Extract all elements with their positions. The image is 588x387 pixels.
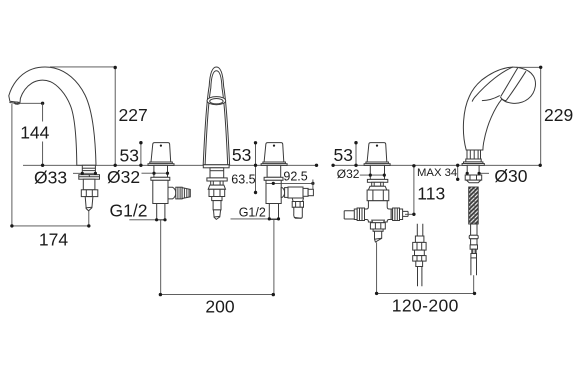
diverter left arm block	[354, 209, 357, 220]
svg-text:53: 53	[120, 146, 139, 166]
diverter centerline	[376, 242, 378, 293]
spout B2 lower tube	[213, 201, 221, 210]
hand shower ribbed connector	[467, 150, 481, 159]
handle H2 top dot	[273, 145, 275, 147]
spout B2 mouth inner	[210, 99, 223, 104]
handle H2 outlet nub	[308, 189, 313, 195]
label G1/2 right leader	[231, 218, 280, 220]
label G1/2 left leader	[129, 219, 165, 221]
dimension 113 leader	[405, 213, 414, 215]
diverter washer	[367, 179, 387, 182]
label diameter 32 small leader	[360, 174, 385, 176]
handle H3 base band	[366, 162, 389, 164]
diverter left arm hex	[357, 208, 364, 221]
handle H1 bottom tube	[157, 204, 165, 220]
spout A1 hex nut	[81, 190, 98, 197]
spout A1 aerator tip	[14, 102, 18, 105]
handle H1 shank tube	[154, 165, 168, 177]
hand shower flange plate	[462, 164, 484, 166]
spout B2 shank tube	[210, 168, 224, 178]
handle H1 outlet boss	[168, 187, 176, 199]
spout B2 flange	[203, 165, 229, 168]
svg-text:92.5: 92.5	[283, 170, 307, 184]
diverter bottom hex	[370, 223, 385, 229]
dimension 227 top line	[50, 66, 115, 68]
hand shower rim line 2	[506, 71, 526, 100]
handle H1 hose barb	[182, 188, 190, 199]
dimension 200 line	[160, 294, 273, 296]
svg-text:Ø32: Ø32	[337, 167, 360, 181]
diverter bottom step	[373, 229, 383, 231]
spout A1 nozzle lip	[9, 103, 20, 104]
svg-text:113: 113	[417, 184, 445, 204]
svg-text:229: 229	[544, 105, 573, 125]
svg-text:53: 53	[334, 145, 353, 165]
svg-text:227: 227	[119, 105, 148, 125]
spout A1 washer plate	[79, 175, 100, 180]
hose connector tube 3	[471, 254, 477, 258]
hand shower collar	[466, 159, 481, 162]
label diameter 30 leader	[479, 172, 489, 174]
spout B2 cone body	[203, 67, 229, 165]
svg-text:63.5: 63.5	[231, 173, 255, 187]
dimension 53 first line	[140, 142, 142, 165]
svg-text:G1/2: G1/2	[239, 205, 266, 219]
label diameter 32 left leader	[142, 172, 168, 174]
spout A1 tail pipe	[85, 197, 93, 211]
handle H3 base plate	[364, 164, 390, 166]
spout B2 shoulder	[208, 185, 225, 189]
handle H1 body	[151, 143, 171, 162]
handle H3 top dot	[376, 145, 378, 147]
hose connector ring	[469, 235, 478, 239]
handle H1 valve body	[153, 180, 168, 203]
hose connector band	[470, 245, 477, 249]
spout A1 lower tube	[83, 179, 95, 190]
svg-text:144: 144	[20, 123, 49, 143]
handle H2 base plate	[261, 164, 287, 166]
dimension 144 line	[42, 103, 44, 121]
handle H1 base plate	[148, 164, 174, 166]
hand shower plate bottom	[500, 97, 506, 101]
hand shower cone washer	[466, 180, 480, 183]
union fitting pipe top	[417, 224, 423, 236]
deck line right group	[333, 164, 540, 166]
handle H2 valve body	[266, 180, 281, 203]
handle H2 centerline	[273, 220, 275, 295]
hose connector tube 2	[471, 239, 477, 245]
diverter right arm boss	[391, 209, 392, 220]
handle H2 outlet step	[303, 188, 308, 196]
handle H2 washer	[264, 177, 283, 180]
handle H2 outlet boss	[281, 188, 284, 198]
dimension 227 line	[114, 67, 116, 165]
svg-text:120-200: 120-200	[392, 296, 459, 316]
union fitting band	[415, 250, 425, 256]
diverter big hex	[367, 190, 389, 201]
label diameter 33 leader	[73, 172, 96, 174]
dimension 229 top line	[516, 66, 541, 68]
hand shower rim line 1	[501, 68, 518, 97]
hand shower outline	[463, 67, 535, 150]
handle H1 outlet hex	[176, 187, 182, 199]
diverter right arm block	[400, 209, 403, 220]
handle H2 branch tube	[294, 207, 303, 218]
handle H1 centerline	[160, 220, 162, 295]
union fitting pipe bottom	[418, 267, 422, 287]
diverter right arm hex	[393, 208, 400, 221]
diverter left arm pipe	[344, 211, 354, 219]
dimension 53/63.5 shared line	[255, 143, 257, 193]
spout B2 washer	[207, 178, 227, 181]
hose connector tube	[471, 224, 477, 235]
deck line left group	[23, 164, 317, 166]
handle H2 branch hex	[292, 202, 303, 208]
svg-text:Ø32: Ø32	[107, 167, 140, 187]
hand shower mounting nut	[465, 175, 482, 180]
handle H1 top dot	[160, 145, 162, 147]
handle H2 outlet collar	[285, 188, 288, 198]
handle H1 washer	[151, 177, 170, 180]
hose connector dark detail	[472, 249, 476, 253]
dimension 92.5 line	[267, 182, 313, 184]
hand shower hose	[469, 187, 479, 224]
union fitting tube	[416, 261, 423, 266]
hand shower neck crease	[482, 96, 500, 101]
dimension 174 extension	[11, 104, 13, 226]
dimension 229 line	[540, 67, 542, 165]
spout B2 mouth outer	[207, 97, 226, 105]
hand shower shank tube	[467, 165, 479, 175]
diverter right arm pipe	[403, 211, 409, 216]
svg-text:Ø30: Ø30	[494, 166, 527, 186]
diverter shoulder	[368, 186, 386, 190]
spout A1 shank tube	[82, 165, 95, 174]
dimension 53 third line	[355, 143, 357, 166]
handle H2 base band	[263, 162, 286, 164]
union fitting hex upper	[413, 242, 426, 250]
hose end pipe	[471, 258, 477, 275]
spout B2 inner wall	[205, 71, 228, 165]
spout B2 tail pipe	[214, 210, 221, 220]
union fitting collar	[415, 236, 424, 242]
handle H2 branch collar	[292, 198, 303, 202]
svg-text:200: 200	[205, 297, 234, 317]
dimension 174 line	[12, 225, 89, 227]
handle H1 base band	[150, 162, 173, 164]
spout B2 collar	[211, 181, 223, 185]
diverter bottom collar	[372, 220, 385, 223]
diverter collar	[372, 182, 384, 186]
svg-text:174: 174	[39, 230, 68, 250]
spout B2 step	[212, 197, 222, 201]
dimension 113 line	[413, 165, 415, 214]
spout A1 curved body	[9, 67, 96, 165]
svg-text:MAX 34: MAX 34	[417, 167, 457, 179]
handle H2 shank tube	[267, 165, 281, 177]
handle H2 outlet cylinder	[288, 187, 303, 198]
union fitting hex lower	[413, 256, 426, 262]
diverter valve body	[365, 201, 392, 222]
svg-text:53: 53	[232, 145, 251, 165]
dimension 120-200 line	[377, 292, 475, 294]
handle H2 body	[264, 143, 284, 162]
label MAX 34 line	[457, 165, 459, 179]
spout A1 centerline	[88, 211, 90, 226]
diverter shank tube	[370, 165, 384, 179]
hose extension line	[473, 275, 475, 293]
dimension 92.5 extension	[312, 180, 314, 190]
svg-text:G1/2: G1/2	[110, 201, 148, 221]
hand shower flange step	[464, 162, 483, 164]
spout B2 hex nut	[209, 189, 225, 196]
handle H2 bottom tube	[269, 204, 278, 220]
hand shower inner sweep	[472, 67, 513, 102]
diverter tail pipe	[375, 231, 382, 242]
svg-text:Ø33: Ø33	[34, 168, 67, 188]
handle H3 body	[367, 143, 387, 162]
dimension 144 leader	[18, 102, 43, 104]
